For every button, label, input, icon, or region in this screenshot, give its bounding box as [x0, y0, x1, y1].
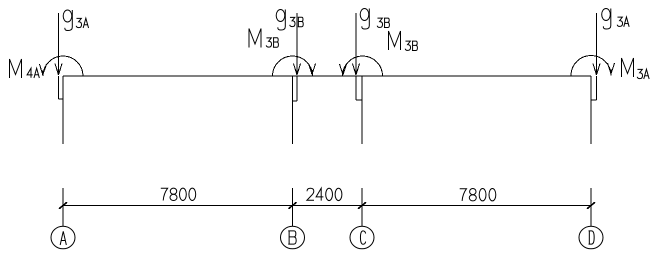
load line g3A at D	[596, 13, 598, 75]
axis bubble D	[579, 226, 603, 249]
support D bottom jog	[591, 99, 597, 101]
moment arc arrowhead at A (left end)	[40, 64, 47, 75]
support B bottom jog	[293, 100, 298, 102]
load line g3B at B	[296, 13, 298, 75]
column axis line D lower segment	[590, 188, 592, 226]
support C left edge	[355, 76, 357, 100]
dimension text 7800 (C-D)	[460, 189, 496, 201]
support C bottom jog	[356, 99, 362, 101]
moment arc M3B at B	[273, 56, 313, 76]
axis bubble B	[281, 226, 305, 249]
load arrowhead at A	[55, 64, 62, 76]
load line g3B at C	[355, 13, 357, 75]
label g3A at D	[602, 9, 629, 30]
moment arc arrowhead at C (left end)	[340, 64, 347, 75]
dimension text 7800 (A-B)	[161, 188, 196, 200]
dimension tick at C	[358, 202, 366, 209]
dimension tick at A	[59, 202, 67, 209]
moment arc arrowhead at D (right end)	[608, 63, 615, 74]
moment arc arrowhead at B (right end)	[309, 64, 316, 75]
load arrowhead at B	[294, 64, 301, 76]
label g3A at A	[63, 10, 88, 31]
dimension line	[63, 205, 591, 207]
moment arc M3B at C	[343, 56, 383, 76]
column axis line A lower segment	[62, 188, 64, 226]
label g3B at C	[360, 9, 389, 30]
column axis line C upper segment	[361, 76, 363, 144]
beam top line	[63, 75, 591, 77]
column axis line B lower segment	[292, 188, 294, 226]
dimension tick at B	[289, 202, 297, 209]
column axis line D upper segment	[590, 76, 592, 144]
load arrowhead at C	[353, 64, 360, 76]
support B right edge	[296, 76, 298, 101]
support D right edge	[596, 76, 598, 100]
load arrowhead at D	[593, 64, 600, 76]
moment arc M3A at D	[571, 56, 611, 76]
load line g3A at A	[58, 13, 60, 75]
dimension tick at D	[587, 202, 595, 209]
dimension text 2400 (B-C)	[307, 188, 342, 200]
label M3B at C	[389, 31, 418, 51]
column axis line B upper segment	[292, 76, 294, 144]
axis bubble C	[350, 226, 374, 249]
label M4A at A	[10, 59, 40, 78]
axis bubble A	[51, 226, 75, 249]
support A left edge (load line continuation)	[58, 76, 60, 99]
column axis line A upper segment	[62, 76, 64, 144]
moment arc M4A at A	[43, 56, 83, 76]
support A bottom jog	[59, 98, 64, 100]
label M3A at D	[622, 58, 650, 79]
label M3B at B	[249, 29, 278, 48]
column axis line C lower segment	[361, 188, 363, 226]
label g3B at B	[276, 10, 303, 31]
